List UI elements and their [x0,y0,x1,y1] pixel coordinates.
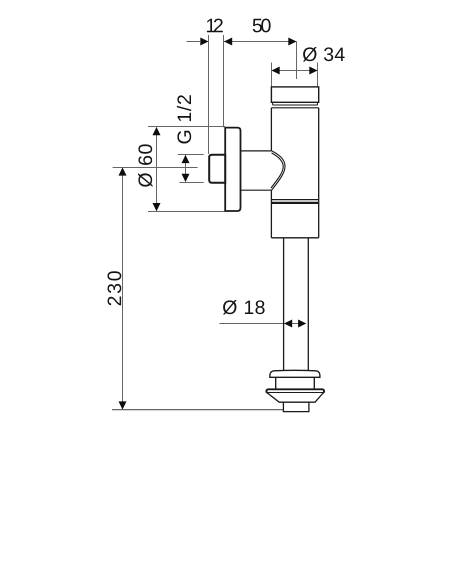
dim G1/2: extension bottom [179,182,203,184]
arrow dim50 right-pointing [288,38,296,46]
dimension and extension lines [112,35,318,410]
label 50 [253,19,271,33]
groove end tick right [317,102,319,105]
arrowheads [119,38,318,410]
dim 230: extension top (inlet axis) [113,167,198,169]
transition line upper [271,199,318,201]
arrow dim34 left-pointing [272,67,280,75]
dim 230: extension bottom [112,409,283,411]
arrow dim18 left [284,320,292,328]
connector bottom line [241,189,272,191]
dome outer curve [272,151,286,191]
dim 34: extension right [317,63,319,88]
body left edge upper [270,108,272,151]
centerline of valve body [296,42,298,80]
label Ø 34 [303,47,345,61]
arrow dim18 right [298,320,306,328]
arrow dimG12 down [182,174,190,182]
arrow dim34 right-pointing [309,67,317,75]
dim 50: dimension line [224,41,297,43]
dim 12: left arrow tail [187,41,201,43]
label G 1/2 (rotated) [177,95,191,143]
arrow dim60 down [153,203,161,211]
dim 18: leader line [220,323,300,325]
groove line under cap [273,104,318,106]
connector top line [241,150,272,152]
dim G1/2: dimension line [185,155,187,182]
arrow dim230 down [119,401,127,409]
down pipe right edge [307,238,309,371]
dim 60: dimension line [156,127,158,210]
upper flange disc [270,370,320,377]
arrow dim12 right-pointing [200,38,208,46]
down pipe left edge [283,238,285,371]
arrow dim230 up [119,167,127,175]
bottom spigot [283,402,309,411]
dim 230: dimension line [122,168,124,410]
dim 60: extension bottom [148,211,225,213]
label Ø 60 (rotated) [138,144,152,187]
body bottom line [271,237,318,239]
body left edge lower [270,190,272,238]
dim G1/2: extension top [178,154,204,156]
dim 12: extension line 1 [208,35,210,154]
wall rosette plate [225,128,240,211]
G1/2 inlet nipple [209,155,225,183]
arrow dim60 up [153,127,161,135]
middle band left edge [275,377,277,389]
dim 12: extension line 2 [223,35,225,127]
groove end tick left [272,102,274,105]
transition line lower [271,202,318,204]
label Ø 18 [223,300,265,314]
top cap [271,87,318,102]
middle band right edge [313,377,315,389]
arrow dim50 left-pointing [224,38,232,46]
arrow dimG12 up [182,155,190,163]
dim 34: extension left [271,63,273,88]
dim 60: extension top [148,126,225,128]
label 12 [207,19,223,33]
lower flange top plate [266,389,324,393]
label 230 (rotated) [108,271,122,305]
lower flange cone [267,393,323,402]
body top line [271,107,318,109]
body right edge [318,108,320,238]
dome inner curve [271,153,283,188]
dim 34: dimension line [272,70,318,72]
